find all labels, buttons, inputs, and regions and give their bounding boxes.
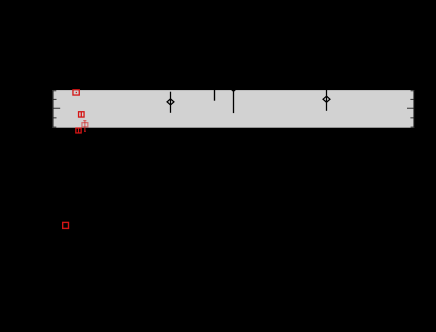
right axis spine (413, 90, 415, 128)
right minor tick y=90.75 (411, 90, 414, 92)
left minor tick y=127.1 (53, 126, 56, 128)
left major tick y=108.25 (53, 107, 60, 109)
red data point 4 error bar (78, 128, 80, 133)
red data point 1 open square marker (73, 90, 79, 95)
left minor tick y=90.75 (53, 90, 56, 92)
right minor tick y=127.1 (411, 126, 414, 128)
red data point 1 tiny error bar (dot) (76, 92, 77, 93)
black error bar L1 (marker above band) (214, 90, 216, 101)
right minor tick y=99.4 (410, 98, 413, 100)
red data point 4 open square marker (76, 128, 81, 133)
red data point 2 open square marker (79, 112, 85, 117)
red data point 2 error bar (80, 112, 82, 117)
red translucent data point 3 error bar lower segment with cap (84, 128, 86, 132)
black data point D2 open diamond marker (323, 96, 330, 102)
black data point D3 error bar (marker above band) (233, 88, 235, 113)
legend red open square marker (63, 222, 69, 228)
black data point D2 error bar (326, 90, 328, 111)
black data point D1 error bar (170, 92, 172, 113)
black data point D1 open diamond marker (167, 99, 174, 105)
left minor tick y=99.4 (53, 98, 56, 100)
red translucent data point 3 open square marker (82, 123, 88, 127)
right major tick y=108.25 (407, 107, 414, 109)
black data point D3 diamond bottom tip (230, 85, 237, 91)
left axis spine (52, 90, 54, 128)
gray uncertainty band (52, 90, 414, 128)
red translucent data point 3 error bar upper segment with cap (83, 121, 86, 128)
left minor tick y=117.85 (53, 117, 56, 119)
right minor tick y=117.85 (410, 117, 413, 119)
